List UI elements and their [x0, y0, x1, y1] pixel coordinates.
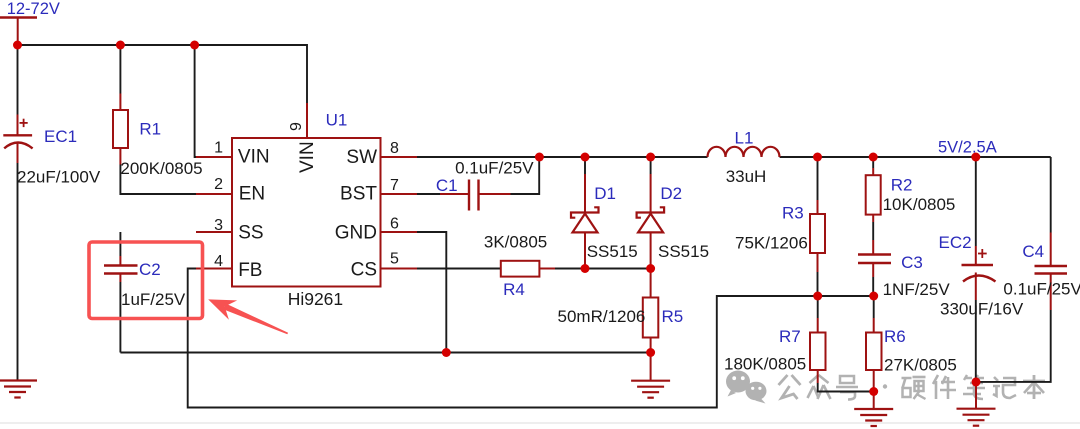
svg-text:180K/0805: 180K/0805 [724, 355, 806, 374]
svg-text:0.1uF/25V: 0.1uF/25V [1003, 280, 1080, 299]
svg-text:7: 7 [390, 177, 399, 194]
svg-text:50mR/1206: 50mR/1206 [558, 307, 646, 326]
svg-text:R5: R5 [662, 307, 684, 326]
svg-text:6: 6 [390, 216, 399, 233]
svg-text:C4: C4 [1022, 242, 1044, 261]
svg-text:1uF/25V: 1uF/25V [121, 290, 186, 309]
svg-text:27K/0805: 27K/0805 [884, 356, 957, 375]
svg-text:12-72V: 12-72V [7, 0, 60, 18]
svg-text:SS515: SS515 [658, 242, 709, 261]
svg-text:9: 9 [288, 122, 305, 131]
svg-text:5: 5 [390, 251, 399, 268]
svg-text:R6: R6 [884, 327, 906, 346]
svg-text:R2: R2 [891, 176, 913, 195]
svg-text:GND: GND [335, 223, 377, 244]
svg-text:R1: R1 [139, 120, 161, 139]
svg-text:EC2: EC2 [939, 233, 972, 252]
svg-text:D2: D2 [660, 184, 682, 203]
svg-text:10K/0805: 10K/0805 [883, 195, 956, 214]
svg-text:VIN: VIN [297, 141, 318, 173]
svg-text:R7: R7 [779, 327, 801, 346]
svg-text:22uF/100V: 22uF/100V [17, 168, 101, 187]
svg-text:C2: C2 [139, 260, 161, 279]
svg-text:2: 2 [214, 176, 223, 193]
svg-text:EC1: EC1 [44, 127, 77, 146]
svg-text:1NF/25V: 1NF/25V [883, 280, 951, 299]
svg-text:SW: SW [346, 147, 377, 168]
svg-text:33uH: 33uH [726, 167, 767, 186]
svg-text:SS: SS [238, 223, 263, 244]
svg-text:3K/0805: 3K/0805 [484, 233, 547, 252]
svg-text:R4: R4 [503, 280, 525, 299]
svg-text:5V/2.5A: 5V/2.5A [938, 139, 997, 157]
svg-text:R3: R3 [782, 204, 804, 223]
svg-text:FB: FB [238, 260, 262, 281]
svg-text:200K/0805: 200K/0805 [120, 159, 202, 178]
svg-text:0.1uF/25V: 0.1uF/25V [455, 159, 534, 178]
svg-text:330uF/16V: 330uF/16V [940, 300, 1024, 319]
svg-text:BST: BST [340, 184, 377, 205]
svg-text:CS: CS [351, 260, 377, 281]
svg-text:EN: EN [239, 184, 265, 205]
svg-text:75K/1206: 75K/1206 [735, 234, 808, 253]
svg-text:4: 4 [214, 253, 223, 270]
svg-text:VIN: VIN [238, 147, 270, 168]
svg-text:C3: C3 [901, 253, 923, 272]
svg-text:3: 3 [214, 217, 223, 234]
svg-text:L1: L1 [735, 129, 754, 148]
svg-text:8: 8 [390, 140, 399, 157]
svg-text:U1: U1 [326, 111, 348, 130]
svg-text:Hi9261: Hi9261 [288, 289, 343, 309]
svg-text:C1: C1 [436, 176, 458, 195]
svg-text:D1: D1 [594, 184, 616, 203]
svg-text:1: 1 [214, 140, 223, 157]
svg-text:SS515: SS515 [587, 242, 638, 261]
